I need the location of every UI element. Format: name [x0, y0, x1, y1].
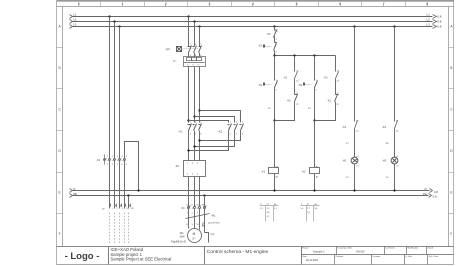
wire PE bus — [73, 195, 429, 197]
terminals X1 feeder (circles with slash) — [104, 159, 126, 161]
aux contact K1 terminal numbers — [296, 70, 299, 82]
wire L3 to lamp contact K2 — [394, 27, 396, 122]
wires F2 down to terminals X1 — [189, 177, 200, 207]
coil K1 — [269, 168, 279, 174]
svg-text:7: 7 — [383, 2, 385, 6]
junction dot L3 tap lamp rung H2 — [393, 25, 395, 27]
breaker Q1 linkage dashes — [182, 48, 199, 50]
sheet top shadow bar — [57, 0, 455, 2]
svg-text:-K1: -K1 — [327, 100, 332, 103]
wire seal-in branch from node rail — [294, 56, 296, 72]
motor M1 circle — [188, 229, 202, 243]
svg-text:-K2: -K2 — [287, 100, 292, 103]
wire merge to coil K2 — [314, 121, 316, 168]
svg-text:3~: 3~ — [192, 236, 196, 240]
svg-text:Drawing number: Drawing number — [338, 248, 353, 250]
lamp H2 — [391, 157, 398, 164]
top ruler ticks — [79, 2, 428, 7]
title block grid row2 column lines — [334, 255, 336, 265]
svg-text:2: 2 — [117, 208, 118, 210]
wire node rail to start button S3 — [314, 56, 316, 81]
interlock contact K2 21-22 (NC) — [295, 95, 298, 102]
cable W1 diagonal marker — [186, 214, 210, 219]
junction dot H2 on N — [393, 189, 395, 191]
junction dot H1 on N — [353, 189, 355, 191]
wire upper crossover to K2 pole 1 — [189, 121, 229, 123]
top ruler column numbers — [78, 2, 428, 6]
svg-text:Sch. Case: Sch. Case — [429, 256, 439, 258]
stop button S1 (NC) — [264, 43, 277, 51]
coil K1 terminal labels — [276, 165, 279, 178]
start button S3 terminal numbers — [316, 80, 318, 92]
sheet left edge — [56, 1, 58, 265]
lamp H2 terminal labels — [396, 156, 399, 168]
junction dot L3 tap rung1 — [273, 25, 275, 27]
start button S3 (NO) — [304, 81, 318, 88]
wire S2 down to merge node — [274, 88, 276, 121]
svg-text:-K1: -K1 — [342, 126, 347, 129]
svg-text:Last Name: Last Name — [385, 247, 396, 250]
aux contact K2 13-14 (NO) — [336, 72, 339, 79]
destination arrows right of buses — [429, 15, 437, 198]
svg-text:3: 3 — [209, 2, 211, 6]
company info text — [111, 247, 172, 262]
aux contact K1 13-14 (NO) — [295, 72, 298, 79]
svg-text:N: N — [425, 187, 427, 191]
interlock contact K1 21-22 (NC) — [335, 95, 339, 102]
aux contact K2 43-44 terminal numbers — [396, 120, 399, 132]
wire S1 to node — [274, 51, 276, 56]
svg-text:E: E — [59, 191, 61, 195]
svg-text:Control schema - M1 engine: Control schema - M1 engine — [207, 249, 269, 255]
wires thermal block down to contactor taps — [189, 67, 200, 123]
wire seal-in branch 2 from node rail — [335, 56, 337, 72]
svg-text:- Logo -: - Logo - — [65, 251, 100, 262]
dashed field wires to sheet bottom — [110, 213, 129, 245]
svg-text:4: 4 — [252, 2, 254, 6]
svg-text:L2: L2 — [427, 18, 431, 22]
svg-text:-F3: -F3 — [267, 33, 271, 36]
junction dots L1 L2 L3 taps to Q1 — [187, 15, 200, 27]
wire K2 aux to K1 interlock — [335, 79, 337, 95]
start button S2 (NO) — [264, 81, 278, 88]
title block grid row1 column lines — [336, 247, 338, 255]
wire lamp H2 to N — [394, 164, 396, 191]
svg-text:L1: L1 — [427, 13, 431, 17]
svg-text:F: F — [450, 232, 452, 236]
fuse F3 terminal numbers — [276, 30, 278, 41]
svg-text:PE: PE — [73, 192, 77, 196]
svg-text:0.8: 0.8 — [437, 15, 441, 19]
svg-text:-X1: -X1 — [96, 159, 101, 162]
svg-text:W: W — [197, 224, 199, 226]
wire K1 aux to K2 interlock — [294, 79, 296, 95]
title block grid row divider — [302, 254, 454, 256]
coil K2 — [310, 168, 320, 174]
wires Q1 contacts to thermal block — [189, 53, 200, 57]
frame inner right ruler line — [448, 7, 450, 247]
svg-text:-S2: -S2 — [258, 84, 263, 87]
title block top border — [57, 246, 454, 248]
svg-text:L2: L2 — [73, 18, 77, 22]
wire L3 to lamp contact K1 — [354, 27, 356, 122]
svg-text:-K1: -K1 — [178, 130, 183, 134]
lamp H1 — [351, 157, 358, 164]
wire N jog from terminal to N bus — [125, 142, 139, 191]
svg-text:Initials: Initials — [428, 247, 434, 250]
coil K2 terminal labels — [316, 165, 319, 178]
left ruler row ticks — [57, 48, 63, 214]
svg-text:0: 0 — [78, 2, 80, 6]
svg-text:M: M — [193, 232, 196, 236]
wire L3 to fuse F3 — [274, 27, 276, 31]
wire L3 bus — [73, 26, 433, 28]
breaker Q1 thermal/magnetic trip block — [184, 57, 206, 67]
wire lamp H1 to N — [354, 164, 356, 191]
interlock contact K1 terminal numbers — [337, 93, 340, 106]
aux contact K2 43-44 (NO) lamp rung — [395, 121, 398, 129]
svg-text:W: W — [197, 205, 199, 207]
svg-text:Modification: Modification — [408, 247, 419, 250]
wire seal-in branch to merge — [275, 102, 295, 121]
svg-text:-F2: -F2 — [175, 164, 180, 168]
svg-text:B: B — [59, 66, 61, 70]
svg-text:-Q1: -Q1 — [165, 47, 170, 51]
wire node to start button S2 — [274, 56, 276, 81]
svg-text:3kW: 3kW — [180, 236, 186, 239]
wire upper crossover to K2 pole 3 — [200, 111, 241, 123]
sheet bottom edge — [57, 264, 454, 266]
wires X1 terminals down to motor — [189, 209, 209, 243]
wire lower crossover from K2 pole 2 — [195, 131, 235, 147]
title block divider schema/grid — [301, 247, 303, 265]
svg-text:EN-029: EN-029 — [356, 251, 365, 254]
svg-text:Example 1: Example 1 — [313, 251, 325, 254]
wire drops L1 L2 L3 to breaker Q1 — [189, 17, 200, 47]
terminals X1 motor (circles with slash) — [187, 206, 206, 209]
contactor K2 main poles — [228, 124, 244, 131]
svg-text:1: 1 — [112, 208, 113, 210]
contactor K1 main poles — [188, 124, 202, 131]
title block divider logo/info — [108, 247, 110, 265]
svg-text:-K2: -K2 — [324, 76, 329, 79]
contactor K2 pole terminal numbers — [230, 122, 244, 135]
terminal numbers X1 feeder — [107, 156, 128, 166]
svg-text:N: N — [73, 187, 75, 191]
wire fuse to stop button S1 — [274, 37, 276, 43]
svg-text:F: F — [59, 232, 61, 236]
svg-text:5: 5 — [296, 2, 298, 6]
svg-text:2: 2 — [165, 2, 167, 6]
svg-text:-S3: -S3 — [298, 84, 303, 87]
svg-text:29-11-2021: 29-11-2021 — [306, 259, 319, 262]
junction dot N jog — [137, 189, 139, 191]
svg-text:-K2: -K2 — [302, 171, 307, 174]
breaker Q1 pole contacts — [188, 46, 202, 53]
svg-text:L3: L3 — [73, 23, 77, 27]
junction dot PE feeder — [127, 194, 129, 196]
lamp H1 terminal labels — [357, 156, 360, 168]
thermal block inner marks — [188, 63, 201, 66]
svg-text:-S1: -S1 — [258, 45, 263, 48]
title grid header texts row1 — [302, 247, 433, 250]
svg-text:L3: L3 — [427, 23, 431, 27]
svg-text:-X1: -X1 — [181, 207, 186, 210]
wire contact to lamp H2 — [394, 129, 396, 158]
wire coil K1 to N — [274, 174, 276, 191]
frame inner top line — [57, 6, 454, 8]
wire lower crossover from K2 pole 1 — [189, 131, 229, 151]
frame inner left ruler line — [62, 7, 64, 247]
wire N bus — [73, 190, 430, 192]
junction dot merge rung1 — [273, 119, 275, 121]
field wire destination flags — [110, 204, 131, 207]
svg-text:B: B — [450, 66, 452, 70]
svg-text:Sample Project at SEE Electric: Sample Project at SEE Electrical — [111, 257, 172, 262]
left ruler row letters — [58, 25, 61, 237]
overload relay F2 box — [184, 161, 206, 177]
svg-text:1: 1 — [121, 2, 123, 6]
svg-text:0.8: 0.8 — [434, 190, 438, 194]
wire upper crossover to K2 pole 2 — [195, 117, 235, 123]
contact cross-reference table K1 — [260, 204, 279, 222]
svg-text:-H1: -H1 — [342, 160, 347, 163]
fuse F3 — [273, 30, 277, 38]
control node rail — [275, 55, 336, 57]
stop button S1 terminal numbers — [276, 42, 278, 53]
svg-text:Q. Stck: Q. Stck — [406, 255, 413, 258]
breaker Q1 operator box — [177, 47, 182, 52]
aux contact K2 terminal numbers — [337, 70, 340, 82]
junction dots control node rail — [273, 54, 315, 56]
contact cross-reference table K2 — [300, 204, 319, 222]
sheet right edge — [453, 1, 455, 265]
breaker Q1 pole terminal numbers — [190, 44, 202, 57]
source arrows left L1 L2 L3 — [70, 15, 73, 198]
svg-text:PE: PE — [423, 192, 427, 196]
interlock contact K2 terminal numbers — [296, 93, 299, 106]
wire coil K2 to N — [314, 174, 316, 191]
junction dot PE tap for motor — [203, 194, 205, 196]
wire drops feeder to terminal strip — [110, 17, 120, 159]
wires K1 poles down — [189, 131, 200, 161]
wire PE drop to motor — [204, 196, 206, 207]
svg-text:0.8: 0.8 — [437, 20, 441, 24]
aux contact K1 43-44 terminal numbers — [356, 120, 359, 132]
title block divider info/schema — [204, 247, 206, 265]
wire S3 down to merge node — [314, 88, 316, 121]
svg-text:Contract: Contract — [336, 255, 344, 258]
svg-text:3: 3 — [122, 208, 123, 210]
terminal 5 stub — [104, 155, 106, 165]
svg-text:-H2: -H2 — [382, 160, 387, 163]
svg-text:-W1: -W1 — [211, 215, 216, 218]
title grid value texts row1 — [313, 251, 365, 254]
PE wire destination flag — [203, 224, 205, 226]
svg-text:-K1: -K1 — [261, 171, 266, 174]
field wire flag labels — [112, 208, 135, 210]
wire lower crossover from K2 pole 3 — [200, 131, 241, 141]
svg-text:-K2: -K2 — [382, 126, 387, 129]
junction dot merge rung3 — [313, 119, 315, 121]
svg-text:8: 8 — [426, 2, 428, 6]
motor wire numbers below cable — [187, 223, 206, 226]
wire L1 bus — [73, 16, 433, 18]
wire seal-in branch 2 to merge — [315, 102, 336, 121]
svg-text:0.8: 0.8 — [437, 25, 441, 29]
title grid value texts row2 — [306, 259, 319, 262]
junction dot L3 tap lamp rung H1 — [353, 25, 355, 27]
aux contact K1 43-44 (NO) lamp rung — [355, 121, 358, 129]
right ruler row ticks — [449, 48, 454, 214]
right ruler row letters — [450, 25, 453, 237]
junction dots lower crossover — [187, 139, 200, 151]
wire merge to coil K1 — [274, 121, 276, 168]
junction dot K1 on N — [273, 189, 275, 191]
svg-text:E: E — [450, 191, 452, 195]
svg-text:6: 6 — [339, 2, 341, 6]
wires terminal strip down to field — [110, 161, 129, 209]
svg-text:0.8: 0.8 — [433, 195, 437, 199]
wire contact to lamp H1 — [354, 129, 356, 158]
overload relay F2 inner terminal marks — [187, 163, 199, 176]
terminal numbers X1 motor — [186, 205, 205, 215]
junction dot K2 on N — [313, 189, 315, 191]
svg-text:(4x1,5/750V): (4x1,5/750V) — [208, 223, 220, 225]
svg-text:Location: Location — [373, 255, 381, 258]
svg-text:3*M*: 3*M* — [210, 234, 215, 236]
svg-text:4Sg/M5-3k-43: 4Sg/M5-3k-43 — [171, 241, 187, 244]
junction dots upper crossover taps — [187, 109, 200, 121]
title grid header texts row2 — [302, 255, 439, 258]
svg-text:I>>: I>> — [173, 60, 177, 63]
node labels L1 L2 L3 left — [73, 13, 77, 196]
svg-text:Project: Project — [302, 247, 309, 250]
wire L2 bus — [73, 21, 433, 23]
start button S2 terminal numbers — [276, 80, 278, 92]
junction dots feeder taps to terminal strip — [108, 15, 120, 27]
svg-text:L1: L1 — [73, 13, 77, 17]
contactor K1 pole terminal numbers — [190, 122, 202, 135]
svg-text:-K2: -K2 — [218, 130, 223, 134]
svg-text:-K1: -K1 — [283, 76, 288, 79]
node labels right bus ends with page refs — [423, 13, 442, 199]
